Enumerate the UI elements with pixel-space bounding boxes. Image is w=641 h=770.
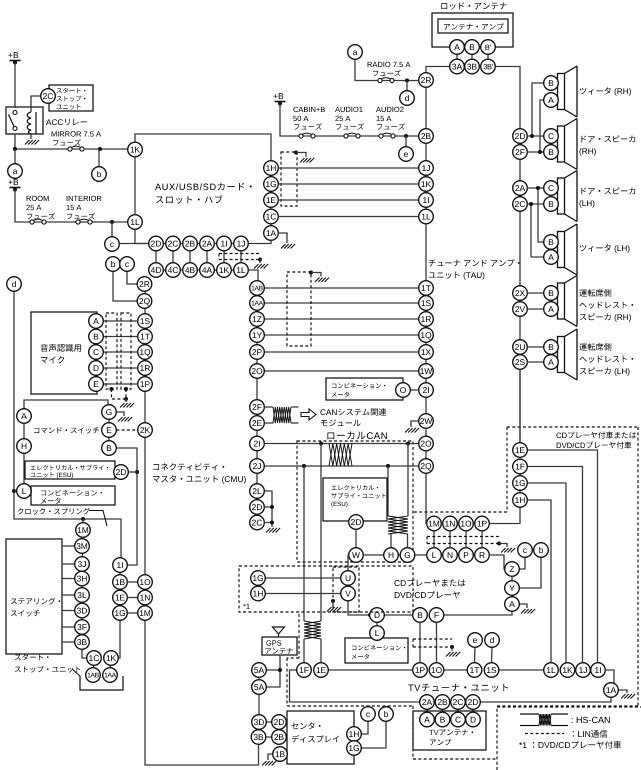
connector 1I TV tuner xyxy=(591,663,606,678)
node c xyxy=(518,543,533,558)
connector 2O CMU xyxy=(250,364,265,379)
wire pin stub xyxy=(172,250,174,263)
node b xyxy=(106,257,121,272)
ground shield CD xyxy=(501,548,515,553)
connector 3M steering xyxy=(75,539,90,554)
wire cabin fuses xyxy=(280,104,419,137)
connector 3H steering xyxy=(75,571,90,586)
wire 2B-1J xyxy=(425,143,427,160)
wire 2K down xyxy=(144,437,146,574)
wire 1F right xyxy=(527,467,582,663)
connector 1O TAU xyxy=(459,516,474,531)
wire 2Q to 1M xyxy=(425,473,428,523)
wire pin stub xyxy=(240,250,242,263)
connector 1G column xyxy=(113,606,128,621)
label ACC relay xyxy=(46,119,87,126)
connector B headrest LH xyxy=(544,340,559,355)
wire xyxy=(296,153,306,158)
wire speaker trunk xyxy=(519,129,521,443)
connector 3D xyxy=(252,715,267,730)
label door LH xyxy=(579,187,635,207)
connector C door RH xyxy=(544,129,559,144)
connector Y CD xyxy=(505,581,520,596)
wire stub xyxy=(291,406,299,408)
wire 1K-1L chain xyxy=(134,157,136,215)
connector A headrest RH xyxy=(544,302,559,317)
connector D CD xyxy=(370,608,385,623)
wire CAN high xyxy=(264,443,418,445)
shield drain xyxy=(112,389,127,399)
legend LIN text xyxy=(573,730,608,738)
label meter TAU xyxy=(332,383,386,397)
node junction xyxy=(405,79,409,83)
connector 1K xyxy=(104,651,119,666)
wire 1I to 1A xyxy=(605,670,614,684)
connector 1A hub right xyxy=(264,226,279,241)
connector 2B TAU xyxy=(419,129,434,144)
label CABIN fuse xyxy=(293,107,325,130)
label *1 xyxy=(243,604,250,609)
connector 1A TV xyxy=(604,683,619,698)
node c xyxy=(105,237,120,252)
connector 2E CMU xyxy=(250,416,265,431)
connector 2U TAU speaker xyxy=(513,340,528,355)
node junction xyxy=(536,186,540,190)
connector 4D harness xyxy=(149,263,164,278)
speaker door RH xyxy=(558,119,578,170)
legend HS-CAN symbol xyxy=(520,714,568,726)
connector 1I TAU xyxy=(419,193,434,208)
wire xyxy=(15,190,128,223)
node G command xyxy=(102,405,117,420)
connector 1T TAU xyxy=(419,281,434,296)
connector 2D CMU xyxy=(250,500,265,515)
wire 3B to 1C xyxy=(82,649,87,658)
shield CD rows xyxy=(427,537,499,544)
wire 1H right xyxy=(527,500,551,663)
wire 1S-1L xyxy=(499,669,544,671)
node junction xyxy=(270,521,274,525)
connector 1E column xyxy=(113,590,128,605)
wire 1G to 1K xyxy=(118,620,120,658)
wire pin stub xyxy=(206,250,208,263)
wire G ground xyxy=(116,412,124,416)
wire 1G right xyxy=(527,483,566,663)
wire CAN to center display A xyxy=(320,444,322,622)
node junction xyxy=(404,134,408,138)
box center display xyxy=(287,711,354,764)
wire aux-tau xyxy=(278,216,418,218)
wire 2W ground xyxy=(411,421,419,427)
connector 1F TAU2 xyxy=(513,459,528,474)
wire xyxy=(406,81,408,91)
shield TAU rows xyxy=(287,272,311,346)
connector 2C TAU speaker xyxy=(513,197,528,212)
connector 1H display xyxy=(347,727,362,742)
box start-stop-unit xyxy=(49,85,93,111)
label ESU left xyxy=(30,465,108,478)
wire d stub xyxy=(491,647,494,662)
connector 1R CMU xyxy=(138,361,153,376)
node junction xyxy=(302,464,306,468)
connector 1I hub bottom xyxy=(217,236,232,251)
shield UV dashed xyxy=(333,567,359,612)
wire A ground xyxy=(519,604,527,608)
wire 3A to 2R xyxy=(426,67,450,73)
region *1 dashed xyxy=(239,566,413,612)
connector 2I CMU xyxy=(250,436,265,451)
connector G CD player xyxy=(400,548,415,563)
connector 1X TAU xyxy=(419,345,434,360)
node junction xyxy=(406,442,410,446)
fuse AUDIO1 25A xyxy=(344,133,360,138)
node junction xyxy=(12,489,16,493)
speaker headrest RH xyxy=(558,276,578,327)
shield BF rows xyxy=(413,639,452,647)
connector 1N TAU xyxy=(443,516,458,531)
wire xyxy=(407,534,409,548)
connector B CD xyxy=(413,608,428,623)
ground 2W xyxy=(405,428,419,433)
connector C door LH xyxy=(544,181,559,196)
wire Z-Y-A chain xyxy=(511,569,513,604)
wire 2U to B xyxy=(527,346,543,348)
connector 1P TAU xyxy=(475,516,490,531)
node junction xyxy=(450,645,454,649)
label antenna amp xyxy=(444,23,504,30)
wire 1I chain xyxy=(119,565,121,613)
wire stub xyxy=(62,594,75,596)
wire 1E chain xyxy=(519,450,521,500)
wire 2D to W xyxy=(355,529,357,547)
wire to TAU xyxy=(264,318,418,320)
ground 1B xyxy=(262,761,276,766)
connector L CD player xyxy=(427,548,442,563)
connector 1H CMU2 xyxy=(251,586,266,601)
wire stub xyxy=(62,641,75,643)
wire 3B-2B row xyxy=(259,736,280,738)
node junction xyxy=(98,147,102,151)
connector C mic xyxy=(89,345,104,360)
symbol GPS antenna xyxy=(273,627,285,637)
node c xyxy=(361,707,376,722)
wire V to D xyxy=(348,601,370,615)
wire stub xyxy=(62,563,75,565)
box combination meter left xyxy=(31,486,115,505)
wire TAU mid chain xyxy=(425,281,427,397)
shield drain xyxy=(125,389,127,399)
wire stub xyxy=(465,531,467,548)
connector 2A hub bottom xyxy=(200,236,215,251)
wire tweeter LH A xyxy=(531,204,544,257)
wire coil to 2C xyxy=(31,96,41,112)
wire pair xyxy=(127,612,137,614)
relay switch contacts xyxy=(9,111,18,131)
connector 4A harness xyxy=(200,263,215,278)
fuse RADIO 7.5A xyxy=(378,78,394,83)
node H command xyxy=(17,439,32,454)
connector 1G TAU2 xyxy=(513,476,528,491)
connector 1K TV tuner xyxy=(560,663,575,678)
connector 1J TV tuner xyxy=(576,663,591,678)
wire 2A to C xyxy=(527,187,543,189)
wire to TAU xyxy=(264,351,418,353)
wire CAN stub top xyxy=(264,406,273,408)
fuse AUDIO2 15A xyxy=(379,133,395,138)
wire xyxy=(499,544,507,548)
wire c to 2R xyxy=(127,271,138,284)
connector 2C TV xyxy=(451,695,466,710)
speaker door LH xyxy=(558,171,578,222)
power +B battery feed xyxy=(8,52,20,64)
wire CAN low xyxy=(264,465,418,467)
wire xyxy=(405,136,407,147)
connector 5A display2 xyxy=(252,680,267,695)
label steering switch xyxy=(11,598,60,617)
node junction xyxy=(497,542,501,546)
ground UV shield xyxy=(327,607,341,612)
wire stub xyxy=(442,709,444,713)
node junction xyxy=(294,151,298,155)
node junction xyxy=(368,613,372,617)
lin E to 2K xyxy=(116,429,137,431)
fuse ROOM 25A xyxy=(30,219,46,224)
connector B tweeter RH xyxy=(544,76,559,91)
node junction xyxy=(319,442,323,446)
wire 1A to ground xyxy=(278,233,287,243)
node E command xyxy=(102,423,117,438)
speaker headrest LH xyxy=(558,329,578,380)
connector 1Q CMU xyxy=(138,345,153,360)
wire stub xyxy=(264,506,272,508)
node d xyxy=(7,277,22,292)
twist local CAN drop xyxy=(304,621,321,639)
connector 1G display xyxy=(347,741,362,756)
HS-CAN twisted pair stub xyxy=(273,407,291,423)
connector 2D display xyxy=(272,715,287,730)
connector 1B column xyxy=(113,575,128,590)
wire O to 2I xyxy=(410,389,418,391)
label voice mic xyxy=(41,344,82,363)
shield hub right pins xyxy=(281,152,297,206)
node junction xyxy=(278,668,282,672)
wire 2D to junction xyxy=(128,471,137,473)
connector P CD player xyxy=(459,548,474,563)
wire xyxy=(14,63,16,108)
wire xyxy=(332,601,334,606)
ground G xyxy=(118,417,132,422)
wire F to 1O xyxy=(436,622,438,662)
box ESU middle xyxy=(323,478,387,521)
connector B antenna xyxy=(465,40,480,55)
twist CD drop xyxy=(388,516,408,534)
wire 1G to b xyxy=(361,721,386,748)
wire aux-tau xyxy=(278,199,418,201)
connector 2S TAU speaker xyxy=(513,355,528,370)
ground CMU pins xyxy=(266,528,280,533)
wire b to 2Q xyxy=(113,271,138,301)
label headrest LH xyxy=(579,343,633,376)
label command switch xyxy=(34,427,99,433)
connector 1C hub right xyxy=(264,209,279,224)
wire 1H to V xyxy=(265,593,340,595)
connector 2A TV xyxy=(420,695,435,710)
connector 3J steering xyxy=(75,557,90,572)
wire to TAU xyxy=(264,334,418,336)
wire stub xyxy=(62,545,75,547)
label CMU title xyxy=(153,463,246,484)
wire 3D-3B chain xyxy=(258,729,260,744)
connector U CD xyxy=(341,571,356,586)
connector 1P TV tuner xyxy=(413,663,428,678)
connector B door RH xyxy=(544,145,559,160)
region CD/DVD dashed xyxy=(413,427,638,706)
node junction xyxy=(309,271,313,275)
connector 3D steering xyxy=(75,603,90,618)
wire c to Z xyxy=(519,557,525,569)
wire xyxy=(390,534,392,548)
box TV antenna amp xyxy=(413,711,486,750)
connector Z CD xyxy=(505,562,520,577)
label radio fuse xyxy=(368,62,411,77)
connector B TV amp xyxy=(435,712,450,727)
box start-stop bracket xyxy=(80,676,123,690)
speaker tweeter LH xyxy=(558,224,578,275)
wire U-V chain xyxy=(347,578,349,593)
wire mic xyxy=(96,336,138,338)
wire mic xyxy=(96,367,138,369)
connector 2L CMU xyxy=(250,484,265,499)
node junction xyxy=(530,134,534,138)
connector 2B TV xyxy=(435,695,450,710)
connector B tweeter LH xyxy=(544,235,559,250)
connector 1T CMU xyxy=(138,329,153,344)
label CD region xyxy=(556,432,636,449)
connector 1O CMU xyxy=(138,575,153,590)
connector L meter bottom xyxy=(370,626,385,641)
label headrest RH xyxy=(579,289,633,322)
wire mid column chain xyxy=(256,281,258,530)
box antenna amp xyxy=(438,19,508,33)
shield mic pair2 xyxy=(121,313,131,389)
connector 1F TV tuner xyxy=(297,663,312,678)
wire G-E-B chain xyxy=(108,418,110,441)
node A command xyxy=(17,409,32,424)
label AUDIO1 fuse xyxy=(335,107,364,130)
wire to TAU xyxy=(264,302,418,304)
wire xyxy=(303,639,305,663)
connector 1M TAU xyxy=(427,516,442,531)
wire GPS to 5A xyxy=(266,669,280,671)
wire CAN to CD G xyxy=(387,466,389,516)
connector 5A display xyxy=(252,663,267,678)
fuse MIRROR 7.5A xyxy=(68,146,84,151)
wire stub xyxy=(264,522,272,524)
node e xyxy=(399,147,414,162)
connector 1T TV tuner xyxy=(467,663,482,678)
shield LIN rows xyxy=(219,254,260,260)
connector 2V TAU speaker xyxy=(513,302,528,317)
connector B door LH xyxy=(544,197,559,212)
shield mic pair1 xyxy=(106,313,117,389)
node junction xyxy=(81,517,85,521)
wire 1E-1P xyxy=(328,669,412,671)
connector 1S TAU xyxy=(419,296,434,311)
label start-stop-unit xyxy=(57,88,86,110)
connector 1K TAU xyxy=(419,177,434,192)
connector A CD xyxy=(505,597,520,612)
connector 1K harness xyxy=(217,263,232,278)
connector 2O TAU xyxy=(419,436,434,451)
node junction xyxy=(538,150,542,154)
node b xyxy=(379,707,394,722)
box GPS antenna xyxy=(262,637,297,655)
wire 1L to 1AB xyxy=(248,270,258,281)
connector 1I column xyxy=(113,558,128,573)
wire 5A chain xyxy=(258,677,260,679)
wire xyxy=(98,149,100,167)
connector 1N CMU xyxy=(138,590,153,605)
connector 1AA start-stop xyxy=(103,668,118,683)
label local CAN xyxy=(327,431,387,439)
connector 1M clockspring xyxy=(76,523,91,538)
connector 1AB CMU xyxy=(250,281,265,296)
node L meter xyxy=(17,484,32,499)
wire tweeter RH A xyxy=(540,100,544,152)
connector 1K hub xyxy=(128,142,143,157)
box meter bottom xyxy=(345,638,408,663)
wire 1G to U xyxy=(265,577,340,579)
connector 1AA CMU xyxy=(250,296,265,311)
wire B to 1I via ESU xyxy=(116,448,137,565)
wire CAN stub bottom xyxy=(264,422,273,424)
connector 1Q TAU xyxy=(419,328,434,343)
label ESU middle xyxy=(331,485,385,507)
box ESU left xyxy=(25,461,115,479)
label INTERIOR fuse xyxy=(67,196,102,220)
node junction xyxy=(124,387,128,391)
wire A-H chain xyxy=(23,423,25,438)
wire pin row 2 xyxy=(149,269,241,271)
speaker tweeter RH xyxy=(558,66,578,117)
connector 2W TAU xyxy=(419,414,434,429)
wire to TAU xyxy=(264,370,418,372)
ground 1A TV xyxy=(621,694,635,699)
connector 1E TAU2 xyxy=(513,443,528,458)
wire tweeter LH B xyxy=(538,188,544,242)
wire B to 1P xyxy=(419,622,421,662)
connector 1J TAU xyxy=(419,161,434,176)
connector 2C start-stop xyxy=(41,89,56,104)
wire radio fuse xyxy=(355,59,419,80)
wire W to U xyxy=(347,556,350,571)
connector A headrest LH xyxy=(544,355,559,370)
wire stub xyxy=(456,54,458,60)
label GPS antenna xyxy=(265,640,292,654)
wire 2C to B xyxy=(527,203,543,205)
connector B mic xyxy=(89,329,104,344)
connector 2B display xyxy=(272,730,287,745)
connector W CD player xyxy=(349,548,364,563)
connector C TV amp xyxy=(451,712,466,727)
node junction xyxy=(110,387,114,391)
connector 1M CMU xyxy=(138,606,153,621)
node a xyxy=(8,164,23,179)
wire aux-tau xyxy=(278,183,418,185)
connector A mic xyxy=(89,314,104,329)
wire 1M to display 3B xyxy=(145,620,259,765)
node junction xyxy=(386,464,390,468)
